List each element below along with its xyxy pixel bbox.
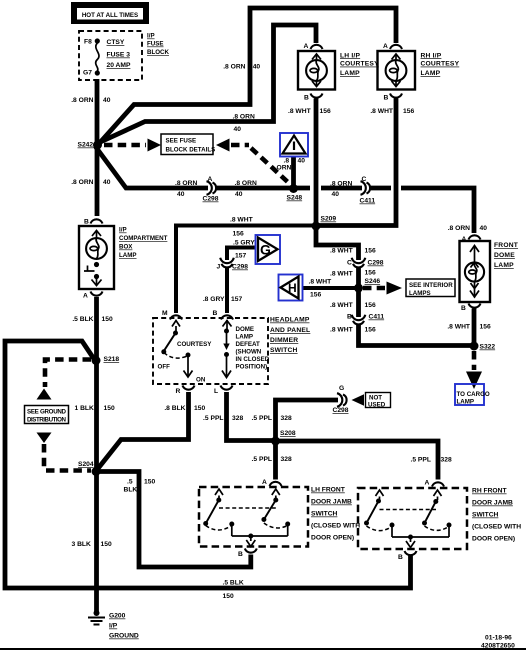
svg-text:DOOR JAMB: DOOR JAMB: [311, 499, 352, 506]
svg-text:3 BLK: 3 BLK: [72, 541, 91, 548]
svg-text:.8 WHT: .8 WHT: [230, 217, 254, 224]
svg-text:A: A: [262, 479, 267, 486]
svg-text:HEADLAMP: HEADLAMP: [270, 317, 310, 324]
svg-text:150: 150: [144, 479, 155, 486]
svg-text:FRONT: FRONT: [494, 242, 519, 249]
svg-text:L: L: [214, 388, 218, 395]
svg-text:DOOR OPEN): DOOR OPEN): [311, 535, 354, 542]
svg-text:.8 ORN: .8 ORN: [71, 97, 93, 104]
svg-text:156: 156: [480, 324, 491, 331]
svg-text:SWITCH: SWITCH: [472, 512, 499, 519]
svg-text:40: 40: [480, 225, 488, 232]
svg-text:LH FRONT: LH FRONT: [311, 487, 346, 494]
svg-text:150: 150: [104, 405, 115, 412]
svg-text:4208T2650: 4208T2650: [481, 643, 515, 650]
svg-text:157: 157: [235, 253, 246, 260]
svg-text:.5 PPL: .5 PPL: [203, 415, 223, 422]
svg-text:B: B: [304, 95, 309, 102]
svg-text:.5: .5: [127, 479, 133, 486]
svg-text:B: B: [384, 95, 389, 102]
svg-text:328: 328: [281, 456, 292, 463]
svg-text:A: A: [462, 236, 467, 243]
svg-text:DISTRIBUTION: DISTRIBUTION: [27, 417, 67, 424]
svg-text:R: R: [176, 388, 181, 395]
svg-text:20 AMP: 20 AMP: [107, 62, 131, 69]
svg-text:40: 40: [177, 191, 185, 198]
svg-text:156: 156: [320, 108, 331, 115]
svg-text:J: J: [217, 264, 221, 271]
svg-text:40: 40: [253, 64, 261, 71]
svg-text:G: G: [339, 385, 344, 392]
svg-text:.8 WHT: .8 WHT: [447, 324, 471, 331]
svg-text:S246: S246: [365, 278, 381, 285]
svg-text:F8: F8: [84, 39, 92, 46]
svg-text:DOOR JAMB: DOOR JAMB: [472, 500, 513, 507]
svg-text:A: A: [208, 176, 213, 183]
svg-text:150: 150: [101, 541, 112, 548]
svg-text:40: 40: [235, 191, 243, 198]
svg-text:328: 328: [281, 415, 292, 422]
svg-text:328: 328: [232, 415, 243, 422]
svg-text:S242: S242: [78, 142, 94, 149]
svg-text:156: 156: [365, 327, 376, 334]
svg-text:.8 WHT: .8 WHT: [288, 108, 312, 115]
svg-text:A: A: [304, 43, 309, 50]
svg-text:A: A: [425, 480, 430, 487]
svg-text:40: 40: [103, 97, 111, 104]
svg-text:156: 156: [403, 108, 414, 115]
svg-text:SWITCH: SWITCH: [270, 347, 298, 354]
svg-text:COMPARTMENT: COMPARTMENT: [119, 235, 168, 242]
svg-text:H: H: [288, 281, 297, 295]
svg-text:40: 40: [298, 158, 306, 165]
svg-text:M: M: [162, 310, 168, 317]
svg-text:.5 PPL: .5 PPL: [252, 456, 272, 463]
svg-text:.5 GRY: .5 GRY: [233, 240, 255, 247]
svg-text:.8 WHT: .8 WHT: [330, 302, 354, 309]
svg-text:150: 150: [102, 316, 113, 323]
svg-text:SEE FUSE: SEE FUSE: [166, 138, 197, 145]
svg-text:DOME: DOME: [236, 326, 255, 333]
svg-text:B: B: [347, 314, 352, 321]
svg-text:.8 WHT: .8 WHT: [330, 327, 354, 334]
svg-text:156: 156: [365, 302, 376, 309]
svg-text:OFF: OFF: [158, 364, 171, 371]
svg-text:NOT: NOT: [369, 395, 382, 402]
svg-text:DIMMER: DIMMER: [270, 337, 298, 344]
svg-text:150: 150: [223, 593, 234, 600]
svg-text:I/P: I/P: [119, 227, 127, 234]
svg-text:.5 BLK: .5 BLK: [72, 316, 93, 323]
svg-text:BLOCK DETAILS: BLOCK DETAILS: [166, 147, 216, 154]
svg-text:S204: S204: [78, 461, 94, 468]
svg-text:BOX: BOX: [119, 244, 133, 251]
svg-text:S218: S218: [104, 356, 120, 363]
svg-text:150: 150: [194, 405, 205, 412]
svg-text:BLK: BLK: [124, 487, 138, 494]
svg-text:LH I/P: LH I/P: [340, 52, 360, 59]
svg-text:S208: S208: [280, 430, 296, 437]
svg-text:.8 ORN: .8 ORN: [223, 64, 245, 71]
svg-text:156: 156: [365, 248, 376, 255]
svg-text:.8 ORN: .8 ORN: [233, 113, 255, 120]
svg-text:.8: .8: [284, 158, 290, 165]
svg-text:C298: C298: [232, 264, 248, 271]
svg-text:.8 ORN: .8 ORN: [71, 179, 93, 186]
svg-text:FUSE 3: FUSE 3: [107, 52, 131, 59]
svg-text:S248: S248: [287, 195, 303, 202]
svg-text:.8 ORN: .8 ORN: [175, 180, 197, 187]
svg-text:CTSY: CTSY: [107, 39, 125, 46]
svg-text:.8 WHT: .8 WHT: [370, 108, 394, 115]
svg-text:C298: C298: [368, 260, 384, 267]
svg-text:ORN: ORN: [277, 165, 292, 172]
svg-text:C298: C298: [333, 407, 349, 414]
svg-text:1 BLK: 1 BLK: [75, 405, 94, 412]
svg-text:RH I/P: RH I/P: [421, 52, 442, 59]
svg-text:COURTESY: COURTESY: [340, 61, 379, 68]
svg-text:LAMPS: LAMPS: [409, 290, 431, 297]
svg-text:COURTESY: COURTESY: [177, 341, 212, 348]
svg-text:.8 ORN: .8 ORN: [235, 180, 257, 187]
svg-text:LAMP: LAMP: [494, 262, 514, 269]
svg-text:B: B: [213, 310, 218, 317]
svg-text:(CLOSED WITH: (CLOSED WITH: [311, 523, 360, 530]
svg-text:G7: G7: [83, 70, 92, 77]
svg-text:156: 156: [365, 270, 376, 277]
svg-text:GROUND: GROUND: [109, 633, 139, 640]
svg-text:.8 BLK: .8 BLK: [164, 405, 185, 412]
svg-text:SEE INTERIOR: SEE INTERIOR: [409, 282, 453, 289]
svg-text:I/P: I/P: [147, 33, 155, 40]
svg-text:B: B: [398, 554, 403, 561]
svg-text:(CLOSED WITH: (CLOSED WITH: [472, 524, 521, 531]
svg-text:LAMP: LAMP: [340, 70, 360, 77]
svg-text:HOT AT ALL TIMES: HOT AT ALL TIMES: [82, 12, 138, 19]
svg-text:.8 WHT: .8 WHT: [330, 271, 354, 278]
svg-text:FUSE: FUSE: [147, 41, 164, 48]
svg-text:USED: USED: [368, 402, 386, 409]
svg-text:.5 BLK: .5 BLK: [223, 580, 244, 587]
svg-text:AND PANEL: AND PANEL: [270, 327, 310, 334]
svg-text:B: B: [84, 219, 89, 226]
svg-text:A: A: [383, 43, 388, 50]
svg-text:01-18-96: 01-18-96: [485, 635, 512, 642]
svg-text:BLOCK: BLOCK: [147, 49, 170, 56]
svg-text:C411: C411: [369, 314, 385, 321]
svg-text:A: A: [83, 293, 88, 300]
svg-text:.8 WHT: .8 WHT: [309, 279, 333, 286]
svg-text:40: 40: [332, 191, 340, 198]
svg-text:328: 328: [441, 457, 452, 464]
svg-text:.8 WHT: .8 WHT: [330, 248, 354, 255]
svg-text:LAMP: LAMP: [119, 252, 137, 259]
svg-text:40: 40: [103, 179, 111, 186]
svg-text:TO CARGO: TO CARGO: [457, 391, 490, 398]
svg-text:ON: ON: [196, 377, 206, 384]
svg-text:S322: S322: [480, 344, 496, 351]
svg-text:S209: S209: [321, 216, 337, 223]
svg-text:SWITCH: SWITCH: [311, 511, 338, 518]
svg-text:G: G: [260, 242, 271, 258]
svg-text:C298: C298: [203, 196, 219, 203]
svg-text:IN CLOSED: IN CLOSED: [236, 356, 270, 363]
svg-text:157: 157: [231, 296, 242, 303]
svg-text:POSITION): POSITION): [236, 364, 268, 371]
svg-text:C411: C411: [360, 198, 376, 205]
svg-text:156: 156: [233, 231, 244, 238]
svg-text:.8 GRY: .8 GRY: [203, 296, 225, 303]
svg-text:.5 PPL: .5 PPL: [252, 415, 272, 422]
svg-text:I/P: I/P: [109, 623, 118, 630]
svg-text:156: 156: [310, 292, 321, 299]
svg-text:.5 PPL: .5 PPL: [411, 457, 431, 464]
svg-text:B: B: [238, 551, 243, 558]
svg-text:G200: G200: [109, 613, 126, 620]
svg-text:LAMP: LAMP: [236, 334, 254, 341]
svg-text:(SHOWN: (SHOWN: [236, 349, 262, 356]
svg-text:40: 40: [234, 126, 242, 133]
svg-text:.8 ORN: .8 ORN: [448, 225, 470, 232]
svg-text:SEE GROUND: SEE GROUND: [27, 409, 67, 416]
svg-text:RH FRONT: RH FRONT: [472, 488, 507, 495]
svg-text:DOOR OPEN): DOOR OPEN): [472, 536, 515, 543]
svg-text:.8 ORN: .8 ORN: [330, 181, 352, 188]
svg-text:COURTESY: COURTESY: [421, 61, 460, 68]
svg-text:B: B: [461, 305, 466, 312]
svg-text:LAMP: LAMP: [457, 399, 475, 406]
svg-text:DOME: DOME: [494, 252, 515, 259]
svg-text:C: C: [347, 260, 352, 267]
svg-text:DEFEAT: DEFEAT: [236, 341, 261, 348]
svg-text:LAMP: LAMP: [421, 70, 441, 77]
svg-text:C: C: [362, 176, 367, 183]
